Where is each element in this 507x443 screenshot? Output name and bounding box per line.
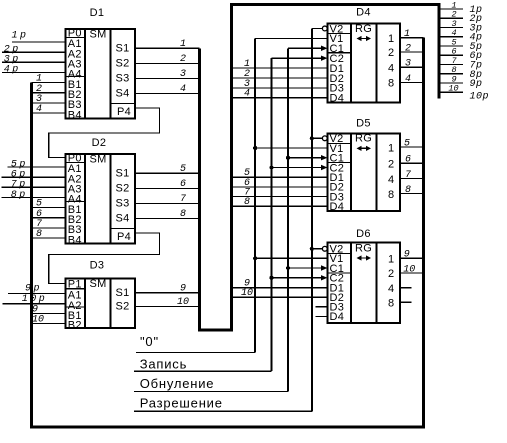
wire feedback 1 to adder B input <box>32 74 66 85</box>
svg-text:S4: S4 <box>116 88 130 100</box>
wire adder sum output 4 <box>135 84 200 95</box>
svg-text:10р: 10р <box>22 294 48 305</box>
svg-text:D4: D4 <box>330 93 345 105</box>
wire input 1p <box>12 31 66 43</box>
svg-text:P4: P4 <box>117 231 131 243</box>
wire feedback 9 to adder B input <box>32 305 66 316</box>
svg-text:"0": "0" <box>140 334 159 349</box>
svg-text:2: 2 <box>388 158 394 170</box>
wire net "0" to V1 pins <box>136 38 255 352</box>
svg-text:9р: 9р <box>470 79 483 90</box>
wire V1 pin <box>255 37 327 39</box>
svg-text:SM: SM <box>90 153 107 165</box>
register D5 <box>328 133 400 213</box>
svg-text:2: 2 <box>388 268 394 280</box>
wire register data input 9 <box>233 279 328 290</box>
wire register data input 6 <box>233 178 328 189</box>
wire feedback 10 to adder B input <box>32 315 66 326</box>
svg-text:3: 3 <box>405 59 411 70</box>
wire feedback 4 to adder B input <box>32 104 66 115</box>
svg-text:2: 2 <box>180 54 186 65</box>
svg-text:1: 1 <box>388 33 394 45</box>
wire register output 9 <box>400 250 424 261</box>
svg-text:S1: S1 <box>116 168 130 180</box>
svg-text:D4: D4 <box>356 7 371 19</box>
wire register data input 3 <box>233 79 328 90</box>
junction <box>310 136 314 140</box>
svg-text:RG: RG <box>355 133 372 145</box>
svg-text:B4: B4 <box>68 109 82 121</box>
adder D2 <box>66 152 135 246</box>
svg-text:S3: S3 <box>116 73 130 85</box>
svg-text:5: 5 <box>404 139 410 150</box>
wire output stub 3 <box>440 19 482 35</box>
wire adder sum output 3 <box>135 69 200 80</box>
svg-text:B2: B2 <box>68 320 82 332</box>
wire output stub 8 <box>440 65 482 81</box>
wire V2 pin with inverter circle <box>312 26 327 31</box>
wire output stub 10 <box>440 84 489 103</box>
wire register output 3 <box>400 59 424 70</box>
wire V1 pin <box>255 147 327 149</box>
svg-text:8: 8 <box>388 189 394 201</box>
svg-text:1: 1 <box>404 29 410 40</box>
junction <box>286 266 290 270</box>
wire feedback 7 to adder B input <box>32 219 66 230</box>
svg-text:2: 2 <box>405 43 411 54</box>
svg-text:9: 9 <box>404 250 410 261</box>
wire adder sum output 7 <box>135 194 200 205</box>
junction <box>286 156 290 160</box>
wire V2 pin with inverter circle <box>312 246 327 251</box>
wire register data input 1 <box>233 59 328 70</box>
wire register output 1 <box>400 29 424 40</box>
svg-text:4р: 4р <box>4 65 21 76</box>
wire C1 pin with edge arrow <box>288 46 327 51</box>
wire input 10p <box>2 294 65 305</box>
svg-text:10: 10 <box>32 315 44 326</box>
svg-text:D1: D1 <box>90 7 105 19</box>
svg-text:D2: D2 <box>92 137 107 149</box>
svg-text:S1: S1 <box>116 43 130 55</box>
svg-text:B4: B4 <box>68 234 82 246</box>
svg-text:D4: D4 <box>330 311 345 323</box>
bus: adder outputs down-up loop to top border and output comb <box>200 5 439 331</box>
wire register output 6 <box>400 155 424 166</box>
wire feedback 8 to adder B input <box>32 229 66 240</box>
svg-text:2: 2 <box>388 47 394 59</box>
wire register data input 8 <box>233 197 328 208</box>
svg-text:D4: D4 <box>330 201 345 213</box>
bus: register outputs right side, bottom border, left border feedback <box>32 38 424 427</box>
adder D1 <box>66 27 135 121</box>
svg-text:SM: SM <box>90 278 107 290</box>
wire feedback 2 to adder B input <box>32 84 66 95</box>
svg-text:D3: D3 <box>90 260 105 272</box>
svg-text:10: 10 <box>448 84 458 94</box>
svg-text:1: 1 <box>388 142 394 154</box>
wire adder sum output 1 <box>135 39 200 50</box>
svg-text:4: 4 <box>405 74 411 85</box>
svg-text:S4: S4 <box>116 213 130 225</box>
wire output stub 1 <box>440 0 482 16</box>
svg-text:10р: 10р <box>470 92 490 103</box>
svg-text:RG: RG <box>355 23 372 35</box>
wire C2 pin with edge arrow <box>272 275 328 280</box>
wire carry D1.P4 to D2.P0 <box>49 108 160 157</box>
svg-text:SM: SM <box>90 28 107 40</box>
wire net Obnulenie to C1 pins <box>134 48 288 391</box>
wire output stub 2 <box>440 10 482 26</box>
wire V1 pin <box>255 257 327 259</box>
wire C1 pin with edge arrow <box>288 155 327 160</box>
wire input 3p <box>2 55 66 66</box>
wire stub D6 output 8 <box>400 301 412 303</box>
wire adder sum output 10 <box>135 297 200 308</box>
wire input 2p <box>2 44 66 55</box>
svg-text:8: 8 <box>180 209 186 220</box>
svg-text:RG: RG <box>355 242 372 254</box>
svg-text:S1: S1 <box>116 287 130 299</box>
svg-text:8: 8 <box>244 197 250 208</box>
wire C1 pin with edge arrow <box>288 265 327 270</box>
svg-text:1: 1 <box>180 39 186 50</box>
svg-text:S2: S2 <box>116 183 130 195</box>
svg-text:D6: D6 <box>356 228 371 240</box>
junction <box>310 247 314 251</box>
svg-text:10: 10 <box>403 264 415 275</box>
wire output stub 6 <box>440 47 482 63</box>
wire input 9p <box>8 284 65 295</box>
svg-text:7: 7 <box>405 170 411 181</box>
wire output stub 9 <box>440 74 482 90</box>
svg-text:4: 4 <box>180 84 186 95</box>
svg-text:S3: S3 <box>116 198 130 210</box>
junction <box>253 256 257 260</box>
wire register output 10 <box>400 264 424 275</box>
wire feedback 5 to adder B input <box>32 199 66 210</box>
svg-text:10: 10 <box>177 297 189 308</box>
svg-text:8: 8 <box>36 229 42 240</box>
wire adder sum output 5 <box>135 164 200 175</box>
wire V2 pin with inverter circle <box>312 136 327 141</box>
svg-text:5: 5 <box>180 164 186 175</box>
svg-text:Разрешение: Разрешение <box>140 395 223 410</box>
svg-text:P4: P4 <box>117 106 131 118</box>
svg-text:8: 8 <box>388 298 394 310</box>
svg-text:D5: D5 <box>356 118 371 130</box>
wire register output 5 <box>400 139 424 150</box>
svg-text:9р: 9р <box>25 284 42 295</box>
junction <box>269 276 273 280</box>
svg-text:4: 4 <box>36 104 42 115</box>
wire output stub 4 <box>440 28 482 44</box>
wire register output 2 <box>400 43 424 54</box>
junction <box>253 146 257 150</box>
svg-text:4: 4 <box>388 283 394 295</box>
wire feedback 3 to adder B input <box>32 94 66 105</box>
wire register data input 5 <box>233 168 328 179</box>
wire stub D6.D4 <box>316 315 328 317</box>
wire register output 8 <box>400 185 424 196</box>
svg-text:8р: 8р <box>11 190 28 201</box>
wire net Zapis to C2 pins <box>134 58 272 371</box>
wire input 8p <box>2 190 66 201</box>
wire register data input 4 <box>233 89 328 100</box>
svg-text:4: 4 <box>244 89 250 100</box>
svg-text:9: 9 <box>180 283 186 294</box>
wire adder sum output 6 <box>135 179 200 190</box>
wire register data input 2 <box>233 69 328 80</box>
wire output stub 7 <box>440 56 482 72</box>
wire stub D6 output 4 <box>400 287 412 289</box>
wire adder sum output 8 <box>135 209 200 220</box>
wire C2 pin with edge arrow <box>272 165 328 170</box>
svg-text:10: 10 <box>241 288 253 299</box>
wire input 4p <box>2 65 66 76</box>
wire adder sum output 2 <box>135 54 200 65</box>
wire output stub 5 <box>440 37 482 53</box>
svg-text:1р: 1р <box>12 31 29 42</box>
wire input 7p <box>2 180 66 191</box>
svg-text:7: 7 <box>180 194 186 205</box>
svg-text:Обнуление: Обнуление <box>140 376 215 391</box>
svg-text:4: 4 <box>388 174 394 186</box>
junction <box>269 165 273 169</box>
svg-text:S2: S2 <box>116 301 130 313</box>
wire register data input 10 <box>233 288 328 299</box>
svg-text:6: 6 <box>180 179 186 190</box>
wire input 6p <box>2 170 66 181</box>
svg-text:8: 8 <box>405 185 411 196</box>
svg-text:Запись: Запись <box>140 356 187 371</box>
register D6 <box>328 242 400 323</box>
wire register output 7 <box>400 170 424 181</box>
svg-text:6: 6 <box>405 155 411 166</box>
wire register data input 7 <box>233 188 328 199</box>
wire input 5p <box>8 159 66 170</box>
wire net Razreshenie to V2 pins <box>134 28 312 411</box>
svg-text:4: 4 <box>388 62 394 74</box>
svg-text:S2: S2 <box>116 58 130 70</box>
wire C2 pin with edge arrow <box>272 55 328 60</box>
svg-text:3: 3 <box>180 69 186 80</box>
wire feedback 6 to adder B input <box>32 209 66 220</box>
adder D3 <box>66 278 135 332</box>
wire stub D6.D3 <box>316 306 328 308</box>
wire carry D2.P4 to D3.P1 <box>49 233 160 283</box>
svg-text:8: 8 <box>388 78 394 90</box>
register D4 <box>328 23 400 105</box>
svg-text:1: 1 <box>388 253 394 265</box>
wire register output 4 <box>400 74 424 85</box>
wire adder sum output 9 <box>135 283 200 294</box>
